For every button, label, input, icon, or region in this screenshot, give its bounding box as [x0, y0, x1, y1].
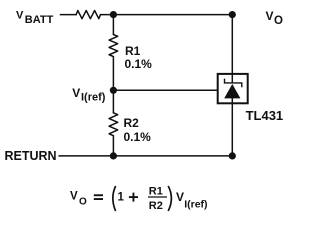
TL431 anode lead: [231, 98, 233, 104]
node junction top-right: [229, 11, 236, 18]
svg-text:RETURN: RETURN: [5, 149, 57, 163]
TL431 cathode bar: [225, 79, 242, 88]
svg-text:R1: R1: [149, 185, 163, 197]
wire top rail right: [101, 14, 233, 16]
node label V_I(ref): [72, 86, 105, 103]
wire right vertical upper: [231, 15, 233, 73]
wire top rail left: [60, 14, 76, 16]
TL431 cathode lead: [231, 73, 233, 83]
wire left vertical lower: [112, 136, 114, 156]
TL431 triangle: [224, 84, 240, 98]
svg-text:V: V: [72, 86, 80, 100]
node junction top-left: [110, 11, 117, 18]
svg-text:R1: R1: [125, 44, 141, 58]
resistor R2: [109, 113, 118, 136]
svg-text:O: O: [79, 196, 87, 207]
svg-text:V: V: [70, 191, 78, 203]
resistor R1: [109, 35, 118, 57]
svg-text:I(ref): I(ref): [81, 91, 106, 103]
svg-text:R2: R2: [149, 200, 163, 212]
wire left vertical middle: [112, 57, 114, 113]
wire ref rail: [113, 89, 216, 91]
svg-text:V: V: [266, 9, 274, 23]
svg-text:I(ref): I(ref): [184, 198, 207, 210]
svg-text:BATT: BATT: [25, 14, 54, 26]
svg-text:V: V: [16, 10, 24, 22]
op-amp U1 TL431 box: [218, 74, 248, 103]
svg-text:V: V: [176, 190, 184, 204]
node V_I(ref) junction: [110, 87, 117, 94]
svg-text:R2: R2: [124, 116, 140, 130]
label VO: [266, 9, 284, 27]
node junction bottom-right: [229, 152, 236, 159]
svg-text:0.1%: 0.1%: [124, 130, 152, 144]
wire right vertical lower: [231, 104, 233, 156]
wire left vertical upper: [112, 15, 114, 35]
formula VO = (1 + R1/R2) VI(ref): [70, 185, 208, 212]
wire bottom rail: [59, 155, 232, 157]
node junction bottom-left: [110, 152, 117, 159]
svg-text:TL431: TL431: [246, 108, 284, 123]
label VBATT: [16, 10, 54, 26]
svg-text:O: O: [274, 15, 283, 27]
svg-text:1: 1: [118, 192, 125, 204]
svg-text:0.1%: 0.1%: [125, 57, 153, 71]
resistor series (unlabeled): [76, 11, 100, 19]
